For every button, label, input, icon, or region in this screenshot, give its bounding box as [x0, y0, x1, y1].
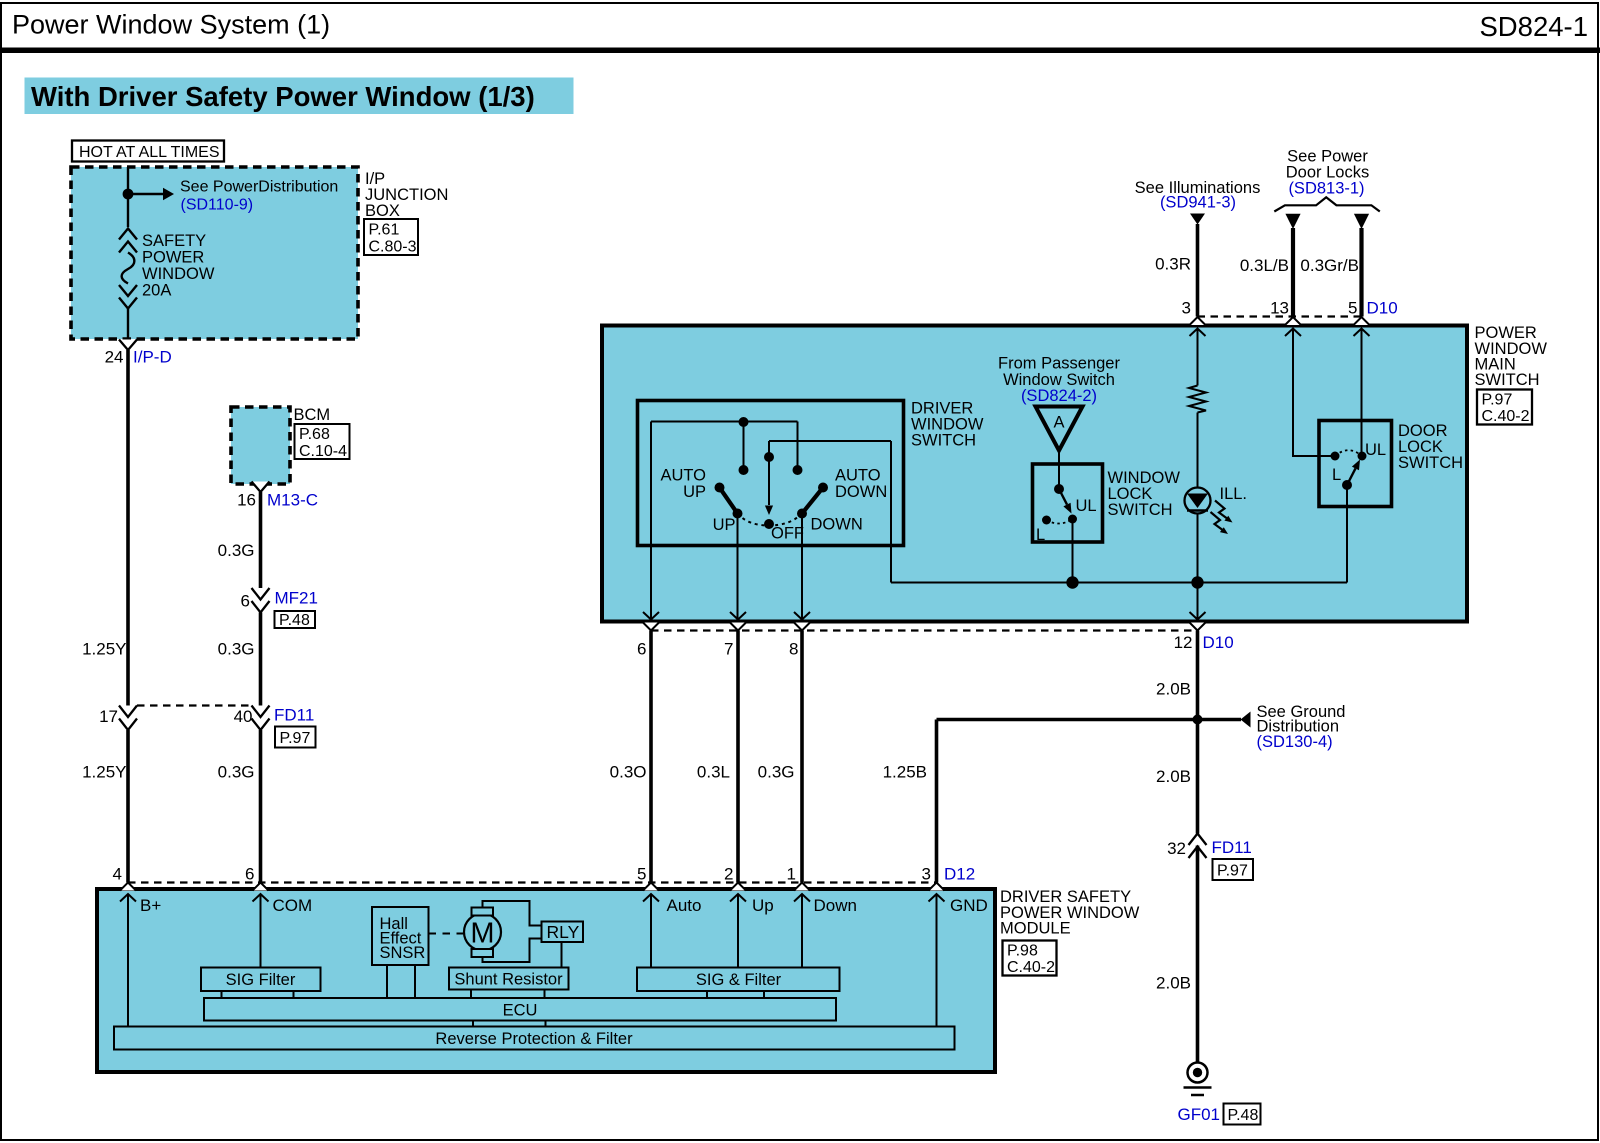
svg-text:GF01: GF01 — [1178, 1105, 1221, 1124]
ECU box — [204, 998, 836, 1021]
pin 2 entry Up — [730, 883, 746, 902]
contact dot L — [1331, 452, 1340, 461]
svg-text:0.3G: 0.3G — [218, 640, 255, 659]
pin 1 entry Down — [794, 883, 810, 902]
contact dot DOWN — [797, 509, 807, 519]
POWER WINDOW MAIN SWITCH box — [602, 326, 1467, 622]
pin 3 entry GND — [929, 883, 945, 902]
reference box P.97 C.40-2 (main switch) — [1477, 390, 1532, 425]
svg-text:SWITCH: SWITCH — [1108, 501, 1173, 519]
svg-text:Down: Down — [814, 896, 857, 915]
wire: GND to reverse protection — [936, 894, 938, 1027]
svg-text:OFF: OFF — [771, 525, 804, 543]
svg-text:2.0B: 2.0B — [1156, 974, 1191, 993]
label: HOT AT ALL TIMES — [72, 141, 224, 162]
wire: motor top to relay — [483, 901, 542, 926]
svg-text:P.97: P.97 — [280, 730, 311, 747]
pin 6 exit — [643, 612, 659, 631]
svg-text:6: 6 — [245, 865, 254, 884]
svg-text:0.3L/B: 0.3L/B — [1240, 256, 1289, 275]
wire 0.3L pin7 to module pin 2 — [736, 631, 740, 883]
arrow: see power distribution — [163, 188, 174, 201]
wire: LED down to bus — [1197, 514, 1199, 583]
svg-text:UP: UP — [683, 483, 706, 501]
DRIVER WINDOW SWITCH box — [638, 401, 904, 546]
svg-text:POWER: POWER — [142, 249, 204, 267]
svg-text:12: 12 — [1174, 633, 1193, 652]
wire: auto-down contact stub — [797, 422, 799, 469]
pin 4 entry B+ — [120, 883, 136, 902]
svg-text:20A: 20A — [142, 282, 171, 300]
wire: UP contact down to pin 7 — [737, 514, 739, 620]
pin 8 exit — [794, 612, 810, 631]
connector 32 FD11 — [1189, 834, 1207, 859]
pin 6 entry COM — [253, 883, 269, 902]
svg-text:8: 8 — [789, 640, 798, 659]
wire stub to see-ground arrow — [1198, 718, 1242, 722]
svg-text:D12: D12 — [944, 865, 975, 884]
connector 6 MF21 — [252, 588, 270, 613]
brace over door lock wires — [1274, 197, 1380, 211]
pin 13 entry — [1285, 317, 1301, 336]
svg-text:0.3L: 0.3L — [697, 763, 730, 782]
reference box P.61 C.80-3 — [364, 219, 418, 255]
svg-text:16: 16 — [237, 491, 256, 510]
motor M — [464, 914, 501, 951]
connector dashed link 17-40 — [137, 704, 251, 706]
svg-text:6: 6 — [637, 640, 646, 659]
svg-text:M13-C: M13-C — [267, 491, 318, 510]
wire 2.0B down to ground — [1196, 846, 1200, 1063]
svg-text:(SD110-9): (SD110-9) — [181, 197, 254, 214]
wire 0.3G from MF21 to connector 40 — [259, 613, 263, 706]
Reverse Protection & Filter box — [114, 1027, 955, 1050]
svg-text:P.48: P.48 — [1228, 1107, 1259, 1124]
contact dot — [793, 465, 803, 475]
svg-text:SIG Filter: SIG Filter — [226, 971, 296, 989]
switch lever with arrow — [1347, 468, 1356, 485]
wire 0.3Gr/B down to pin 5 — [1359, 228, 1363, 317]
svg-text:1.25Y: 1.25Y — [82, 763, 126, 782]
svg-text:C.10-4: C.10-4 — [299, 443, 347, 460]
reference box P.48 (GF01) — [1224, 1104, 1261, 1125]
arrow feed: illumination wire — [1190, 214, 1205, 225]
arrow feed: door lock wire 5 — [1354, 214, 1369, 229]
connector 24 I/P-D (box exit) — [119, 340, 137, 351]
reference box P.68 C.10-4 — [295, 424, 350, 459]
connector row D12: dashed link — [128, 881, 937, 883]
wire: switch second rail — [769, 440, 891, 442]
svg-text:FD11: FD11 — [274, 706, 314, 725]
connector row D10 bottom: dashed link — [651, 629, 1198, 631]
wire 2.0B pin12 down — [1196, 631, 1200, 720]
wire: pin13 to L contact — [1293, 329, 1331, 456]
svg-text:P.61: P.61 — [369, 222, 400, 239]
svg-text:3: 3 — [922, 865, 931, 884]
wire 0.3L/B down to pin 13 — [1291, 228, 1295, 317]
svg-text:C.40-2: C.40-2 — [1007, 959, 1055, 976]
SIG Filter box — [201, 968, 321, 992]
svg-text:DOWN: DOWN — [835, 483, 887, 501]
Hall Effect SNSR box — [372, 907, 429, 965]
svg-text:1.25Y: 1.25Y — [82, 640, 126, 659]
title separator line — [0, 48, 1600, 54]
svg-text:ECU: ECU — [503, 1002, 538, 1020]
svg-text:0.3G: 0.3G — [218, 541, 255, 560]
svg-text:AUTO: AUTO — [660, 467, 706, 485]
wire: ground branch to module GND — [937, 718, 1198, 722]
svg-text:SIG & Filter: SIG & Filter — [696, 971, 782, 989]
node: top rail junction — [739, 417, 749, 427]
contact dot L — [1042, 516, 1051, 525]
wires: hall sensor to ECU — [386, 965, 388, 998]
wire: Down to SIG & filter — [801, 894, 803, 968]
svg-text:0.3R: 0.3R — [1155, 255, 1191, 274]
contact dot — [739, 465, 749, 475]
svg-text:BOX: BOX — [365, 202, 400, 220]
svg-text:A: A — [1053, 414, 1064, 432]
svg-text:UL: UL — [1365, 441, 1386, 459]
dashed arc L-UL — [1335, 450, 1362, 456]
svg-text:I/P-D: I/P-D — [133, 348, 172, 367]
svg-text:From Passenger: From Passenger — [998, 355, 1120, 373]
wire: COM to SIG filter — [260, 894, 262, 968]
reference box P.97 (FD11) — [275, 727, 316, 748]
triangle A feed symbol — [1036, 407, 1083, 451]
svg-text:6: 6 — [241, 592, 250, 611]
svg-text:3: 3 — [1182, 299, 1191, 318]
svg-text:C.80-3: C.80-3 — [369, 239, 417, 256]
svg-text:40: 40 — [234, 707, 253, 726]
svg-text:2: 2 — [724, 865, 733, 884]
wire: switch common top rail — [651, 421, 798, 423]
svg-text:Reverse Protection & Filter: Reverse Protection & Filter — [435, 1030, 633, 1048]
contact dot AUTO DOWN — [818, 483, 828, 493]
pin 3 entry — [1190, 317, 1206, 336]
wire: pivot down to bus — [1346, 485, 1348, 583]
svg-text:C.40-2: C.40-2 — [1482, 408, 1530, 425]
svg-text:With Driver Safety Power Windo: With Driver Safety Power Window (1/3) — [31, 81, 535, 112]
arrow: see ground distribution — [1241, 712, 1251, 728]
svg-text:17: 17 — [99, 707, 118, 726]
svg-text:WINDOW: WINDOW — [142, 265, 215, 283]
svg-text:Shunt Resistor: Shunt Resistor — [454, 971, 563, 989]
wire: branch to power distribution — [128, 193, 163, 195]
pin 5 entry Auto — [643, 883, 659, 902]
svg-text:COM: COM — [273, 896, 313, 915]
wire: DOWN contact down to pin 8 — [801, 514, 803, 620]
svg-text:D10: D10 — [1203, 633, 1234, 652]
svg-text:SWITCH: SWITCH — [911, 432, 976, 450]
arrow feed: door lock wire 13 — [1285, 214, 1300, 229]
node: bus junction dot at ILL wire — [1191, 576, 1203, 588]
node: second rail contact dot — [764, 452, 774, 462]
svg-text:MF21: MF21 — [275, 589, 318, 608]
svg-text:24: 24 — [105, 348, 124, 367]
LED ILL lamp — [1185, 488, 1211, 514]
svg-text:(SD130-4): (SD130-4) — [1257, 733, 1333, 751]
contact dot (pole) — [1054, 484, 1064, 494]
connector row D10 top: dashed link — [1198, 315, 1362, 317]
wire: pin5 to UL contact — [1361, 329, 1363, 452]
svg-text:Up: Up — [752, 896, 774, 915]
wire: motor bottom to relay — [483, 939, 542, 963]
DOOR LOCK SWITCH box — [1319, 421, 1392, 507]
svg-text:Power Window System (1): Power Window System (1) — [12, 10, 330, 40]
relay RLY box — [542, 922, 584, 943]
svg-text:BCM: BCM — [294, 406, 331, 424]
svg-text:0.3Gr/B: 0.3Gr/B — [1300, 256, 1359, 275]
reference box P.98 C.40-2 (module) — [1003, 941, 1057, 976]
svg-text:HOT AT ALL TIMES: HOT AT ALL TIMES — [79, 144, 220, 161]
wire: pin3 into resistor — [1197, 329, 1199, 386]
svg-text:L: L — [1036, 526, 1045, 544]
switch lever with arrow — [1059, 489, 1067, 505]
pivot contact dot — [1342, 480, 1352, 490]
pin 7 exit — [730, 612, 746, 631]
node: power junction dot — [123, 189, 134, 200]
connector 17 (FD11) — [119, 706, 137, 731]
svg-text:2.0B: 2.0B — [1156, 680, 1191, 699]
svg-text:P.48: P.48 — [279, 612, 310, 629]
wire: bus down to pin 12 — [1197, 583, 1199, 620]
svg-text:M: M — [470, 918, 494, 950]
DRIVER SAFETY POWER WINDOW MODULE box — [97, 889, 995, 1072]
svg-text:0.3G: 0.3G — [218, 763, 255, 782]
reference box P.97 (FD11 32) — [1213, 859, 1254, 880]
WINDOW LOCK SWITCH box — [1033, 464, 1103, 542]
svg-text:AUTO: AUTO — [835, 467, 881, 485]
svg-text:2.0B: 2.0B — [1156, 767, 1191, 786]
switch lever auto-down/down — [802, 488, 823, 514]
contact dot OFF — [764, 519, 774, 529]
svg-text:P.97: P.97 — [1482, 392, 1513, 409]
fuse SAFETY POWER WINDOW 20A — [119, 199, 137, 339]
wire 0.3G from M13-C to MF21 — [259, 492, 263, 588]
wire: auto-up contact stub — [743, 422, 745, 468]
wire: B+ to reverse protection — [127, 894, 129, 1027]
wire 0.3R down to pin 3 — [1196, 224, 1200, 317]
svg-text:32: 32 — [1167, 839, 1186, 858]
wire 0.3G pin8 to module pin 1 — [800, 631, 804, 883]
dashed arc L-UL — [1047, 519, 1073, 524]
svg-text:ILL.: ILL. — [1220, 485, 1248, 503]
svg-text:FD11: FD11 — [1212, 838, 1252, 857]
dashed link hall-motor — [429, 933, 465, 935]
ground symbol GF01 — [1188, 1063, 1208, 1083]
contact dot AUTO UP — [715, 483, 725, 493]
svg-text:L: L — [1332, 466, 1341, 484]
stubs: SIG & filter to ECU — [706, 991, 708, 998]
svg-text:(SD824-2): (SD824-2) — [1021, 387, 1097, 405]
resistor (illumination) — [1189, 386, 1206, 413]
SIG & Filter box — [637, 968, 840, 992]
wire 0.3G from connector 40 down to module pin 6 — [259, 730, 263, 883]
svg-text:1: 1 — [787, 865, 796, 884]
LED light arrows — [1215, 501, 1229, 520]
wire: Auto to SIG & filter — [650, 894, 652, 968]
I/P junction box (dashed) — [71, 167, 358, 339]
dashed travel arc — [738, 514, 803, 526]
svg-text:P.98: P.98 — [1007, 943, 1038, 960]
node: ground junction dot — [1193, 715, 1203, 725]
svg-text:GND: GND — [950, 896, 988, 915]
wire: triangle to window lock switch — [1058, 451, 1060, 490]
svg-text:D10: D10 — [1367, 299, 1398, 318]
svg-text:(SD941-3): (SD941-3) — [1160, 194, 1236, 212]
svg-text:(SD813-1): (SD813-1) — [1288, 180, 1364, 198]
wire: pin6 riser inside switch — [650, 422, 652, 620]
svg-text:1.25B: 1.25B — [883, 763, 927, 782]
wire 1.25B module pin3 riser — [935, 720, 939, 883]
wire 0.3O pin6 to module pin 5 — [649, 631, 653, 883]
svg-text:RLY: RLY — [547, 922, 580, 942]
Shunt Resistor box — [449, 968, 569, 990]
wire: internal ground bus — [891, 582, 1347, 584]
wire 1.25Y from connector 17 down to module pin 4 — [126, 730, 130, 883]
stubs: SIG filter to ECU — [221, 991, 223, 998]
switch lever auto-up/up — [720, 488, 738, 514]
svg-text:SNSR: SNSR — [380, 944, 426, 962]
wire 2.0B down to connector 32 — [1196, 720, 1200, 834]
svg-text:MODULE: MODULE — [1000, 920, 1071, 938]
wire: second rail drop to bus — [890, 441, 892, 583]
section header bar — [25, 78, 574, 115]
connector 16 M13-C (BCM exit) — [252, 482, 270, 493]
svg-text:5: 5 — [637, 865, 646, 884]
svg-text:Auto: Auto — [667, 896, 702, 915]
svg-text:B+: B+ — [140, 896, 161, 915]
stubs: ECU to reverse protection — [472, 1021, 474, 1027]
wire: battery feed into fuse — [127, 167, 129, 189]
contact dot UP — [733, 509, 743, 519]
svg-text:4: 4 — [113, 865, 122, 884]
svg-text:13: 13 — [1270, 299, 1289, 318]
svg-text:0.3G: 0.3G — [758, 763, 795, 782]
svg-text:UL: UL — [1076, 497, 1097, 515]
connector 40 FD11 — [252, 706, 270, 731]
wire: resistor to LED — [1197, 413, 1199, 489]
pin 12 exit — [1190, 612, 1206, 631]
wire: relay to shunt resistor — [561, 942, 563, 968]
svg-text:P.97: P.97 — [1217, 863, 1248, 880]
svg-text:0.3O: 0.3O — [610, 763, 647, 782]
contact dot UL — [1358, 452, 1367, 461]
svg-text:DOWN: DOWN — [811, 516, 863, 534]
svg-text:5: 5 — [1348, 299, 1357, 318]
wire: UL contact down to bus — [1072, 519, 1074, 583]
pin 5 entry — [1354, 317, 1370, 336]
contact dot UL — [1068, 515, 1077, 524]
wire: Up to SIG & filter — [737, 894, 739, 968]
svg-text:SWITCH: SWITCH — [1398, 454, 1463, 472]
svg-text:SWITCH: SWITCH — [1475, 371, 1540, 389]
svg-text:P.68: P.68 — [299, 426, 330, 443]
svg-text:SAFETY: SAFETY — [142, 232, 206, 250]
svg-text:See PowerDistribution: See PowerDistribution — [180, 179, 338, 196]
node: bus junction dot — [1066, 576, 1078, 588]
BCM box (dashed) — [231, 407, 290, 484]
svg-text:UP: UP — [713, 516, 736, 534]
svg-text:SD824-1: SD824-1 — [1479, 11, 1588, 42]
stubs: shunt to ECU — [470, 990, 472, 999]
wire 1.25Y from I/P-D down to connector 17 — [126, 350, 130, 706]
reference box P.48 (MF21) — [275, 611, 316, 628]
svg-text:7: 7 — [724, 640, 733, 659]
wire: wiper feed with arrow to OFF — [768, 441, 770, 505]
